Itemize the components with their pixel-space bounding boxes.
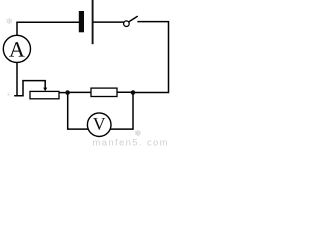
svg-text:✽: ✽ — [135, 129, 142, 138]
svg-text:manfen5. com: manfen5. com — [93, 138, 169, 148]
svg-text:✽: ✽ — [6, 17, 13, 26]
